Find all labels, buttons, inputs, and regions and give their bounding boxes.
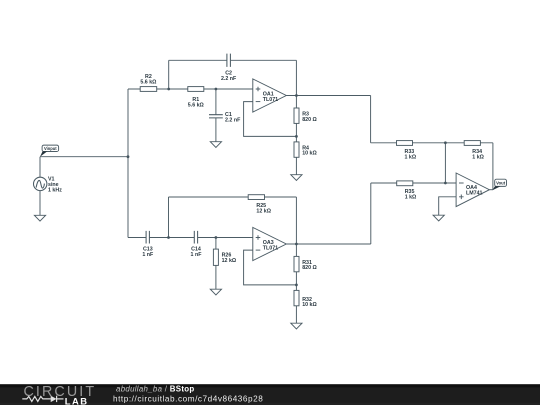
wire input vertical bus [127,89,129,238]
ground (R32) [291,323,302,329]
op-amp OA4 [456,173,489,207]
junction R33/R34 [444,141,447,144]
wire C2 feedback right [230,59,296,61]
junction R2/R1/C2 [167,88,170,91]
svg-text:12 kΩ: 12 kΩ [256,208,271,214]
wire R35 left riser [370,183,372,244]
resistor R33 [397,141,413,146]
wire OA1 output horizontal [286,95,370,97]
wire C2 feedback left [169,59,227,61]
svg-text:Vout: Vout [496,181,506,186]
junction Vinput/bus [127,155,130,158]
resistor R35 [397,181,413,186]
wire C2 riser [168,60,170,89]
junction R1/C1 [215,88,218,91]
wire V1 top stem [39,157,41,178]
wire R31 R32 chain vertical [295,244,297,323]
svg-text:2.2 nF: 2.2 nF [221,76,237,82]
svg-text:5.6 kΩ: 5.6 kΩ [140,80,157,86]
capacitor C14 [194,231,197,244]
resistor R31 [294,256,299,271]
resistor R1 [188,87,204,92]
resistor R3 [294,108,299,123]
svg-text:1 nF: 1 nF [191,252,203,258]
capacitor C1 [209,115,223,118]
wire R25 feedback horizontal [169,196,297,198]
voltage source V1 [34,177,47,190]
wire R25 riser [168,197,170,238]
svg-text:TL071: TL071 [263,97,278,103]
footer bar [0,384,540,405]
ground (OA4 noninverting) [433,215,444,221]
resistor R26 [213,249,218,265]
svg-text:Vinput: Vinput [44,146,57,151]
wire OA3 output horizontal [286,243,371,245]
wire OA4 output vertical [492,143,494,190]
wire OA1 output feedback vertical [295,60,297,95]
svg-text:820 Ω: 820 Ω [302,117,317,123]
svg-text:TL071: TL071 [263,245,278,251]
wire C1 stem lower [215,118,217,142]
svg-text:1 kΩ: 1 kΩ [472,154,484,160]
svg-text:1 kHz: 1 kHz [48,187,62,193]
resistor R32 [294,290,299,305]
ground (V1) [34,215,45,221]
ground (R4) [291,175,302,181]
wire R3 R4 chain vertical [295,96,297,175]
resistor R2 [140,87,157,92]
wire bottom main segment 3 [198,237,253,239]
svg-text:10 kΩ: 10 kΩ [302,151,317,157]
wire bottom main segment 1 [128,237,146,239]
resistor R4 [294,142,299,157]
wire R35 row [371,182,456,184]
svg-text:http://circuitlab.com/c7d4v864: http://circuitlab.com/c7d4v86436p28 [113,395,263,404]
node Vinput flag [40,145,59,157]
capacitor C2 [227,54,231,67]
svg-text:5.6 kΩ: 5.6 kΩ [188,102,205,108]
junction C14/R26 [215,236,218,239]
wire V1 bottom stem [39,191,41,216]
junction OA1 output [295,94,298,97]
svg-text:12 kΩ: 12 kΩ [222,258,237,264]
svg-text:10 kΩ: 10 kΩ [302,302,317,308]
junction C13/C14/R25 [167,236,170,239]
junction R35/OA4 input [444,182,447,185]
svg-text:1 kΩ: 1 kΩ [405,195,417,201]
svg-text:LM741: LM741 [466,190,483,196]
junction OA3 output [295,243,298,246]
node Vout flag [492,179,506,190]
svg-text:820 Ω: 820 Ω [302,265,317,271]
wire OA3 output feedback vertical [295,197,297,244]
wire OA1 output to R33 drop [370,96,372,143]
ground (C1) [210,142,221,148]
svg-text:LAB: LAB [65,395,89,405]
wire summing node drop [444,143,446,183]
wire OA4 output stub [489,189,493,191]
wire OA4 noninverting to ground [439,197,456,216]
junction R3/R4 feedback [295,135,298,138]
svg-text:1 kΩ: 1 kΩ [405,154,417,160]
svg-text:abdullah_ba / BStop: abdullah_ba / BStop [116,385,195,394]
svg-text:2.2 nF: 2.2 nF [225,117,241,123]
ground (R26) [210,289,221,295]
wire top main input [128,88,253,90]
logo resistor+diode glyph [22,396,63,402]
wire OA1 inverting feedback loop [244,102,297,137]
wire C1 stem upper [215,89,217,115]
wire Vinput horizontal [40,156,128,158]
op-amp OA1 [253,79,286,112]
wire R33 R34 row [371,142,493,144]
wire OA3 inverting feedback loop [244,250,297,285]
resistor R25 [248,195,264,200]
op-amp OA3 [253,227,286,260]
wire bottom main segment 2 [149,237,194,239]
junction R31/R32 feedback [295,284,298,287]
wire R26 stem [215,238,217,290]
svg-text:1 nF: 1 nF [142,252,154,258]
capacitor C13 [146,231,149,244]
resistor R34 [464,141,480,146]
